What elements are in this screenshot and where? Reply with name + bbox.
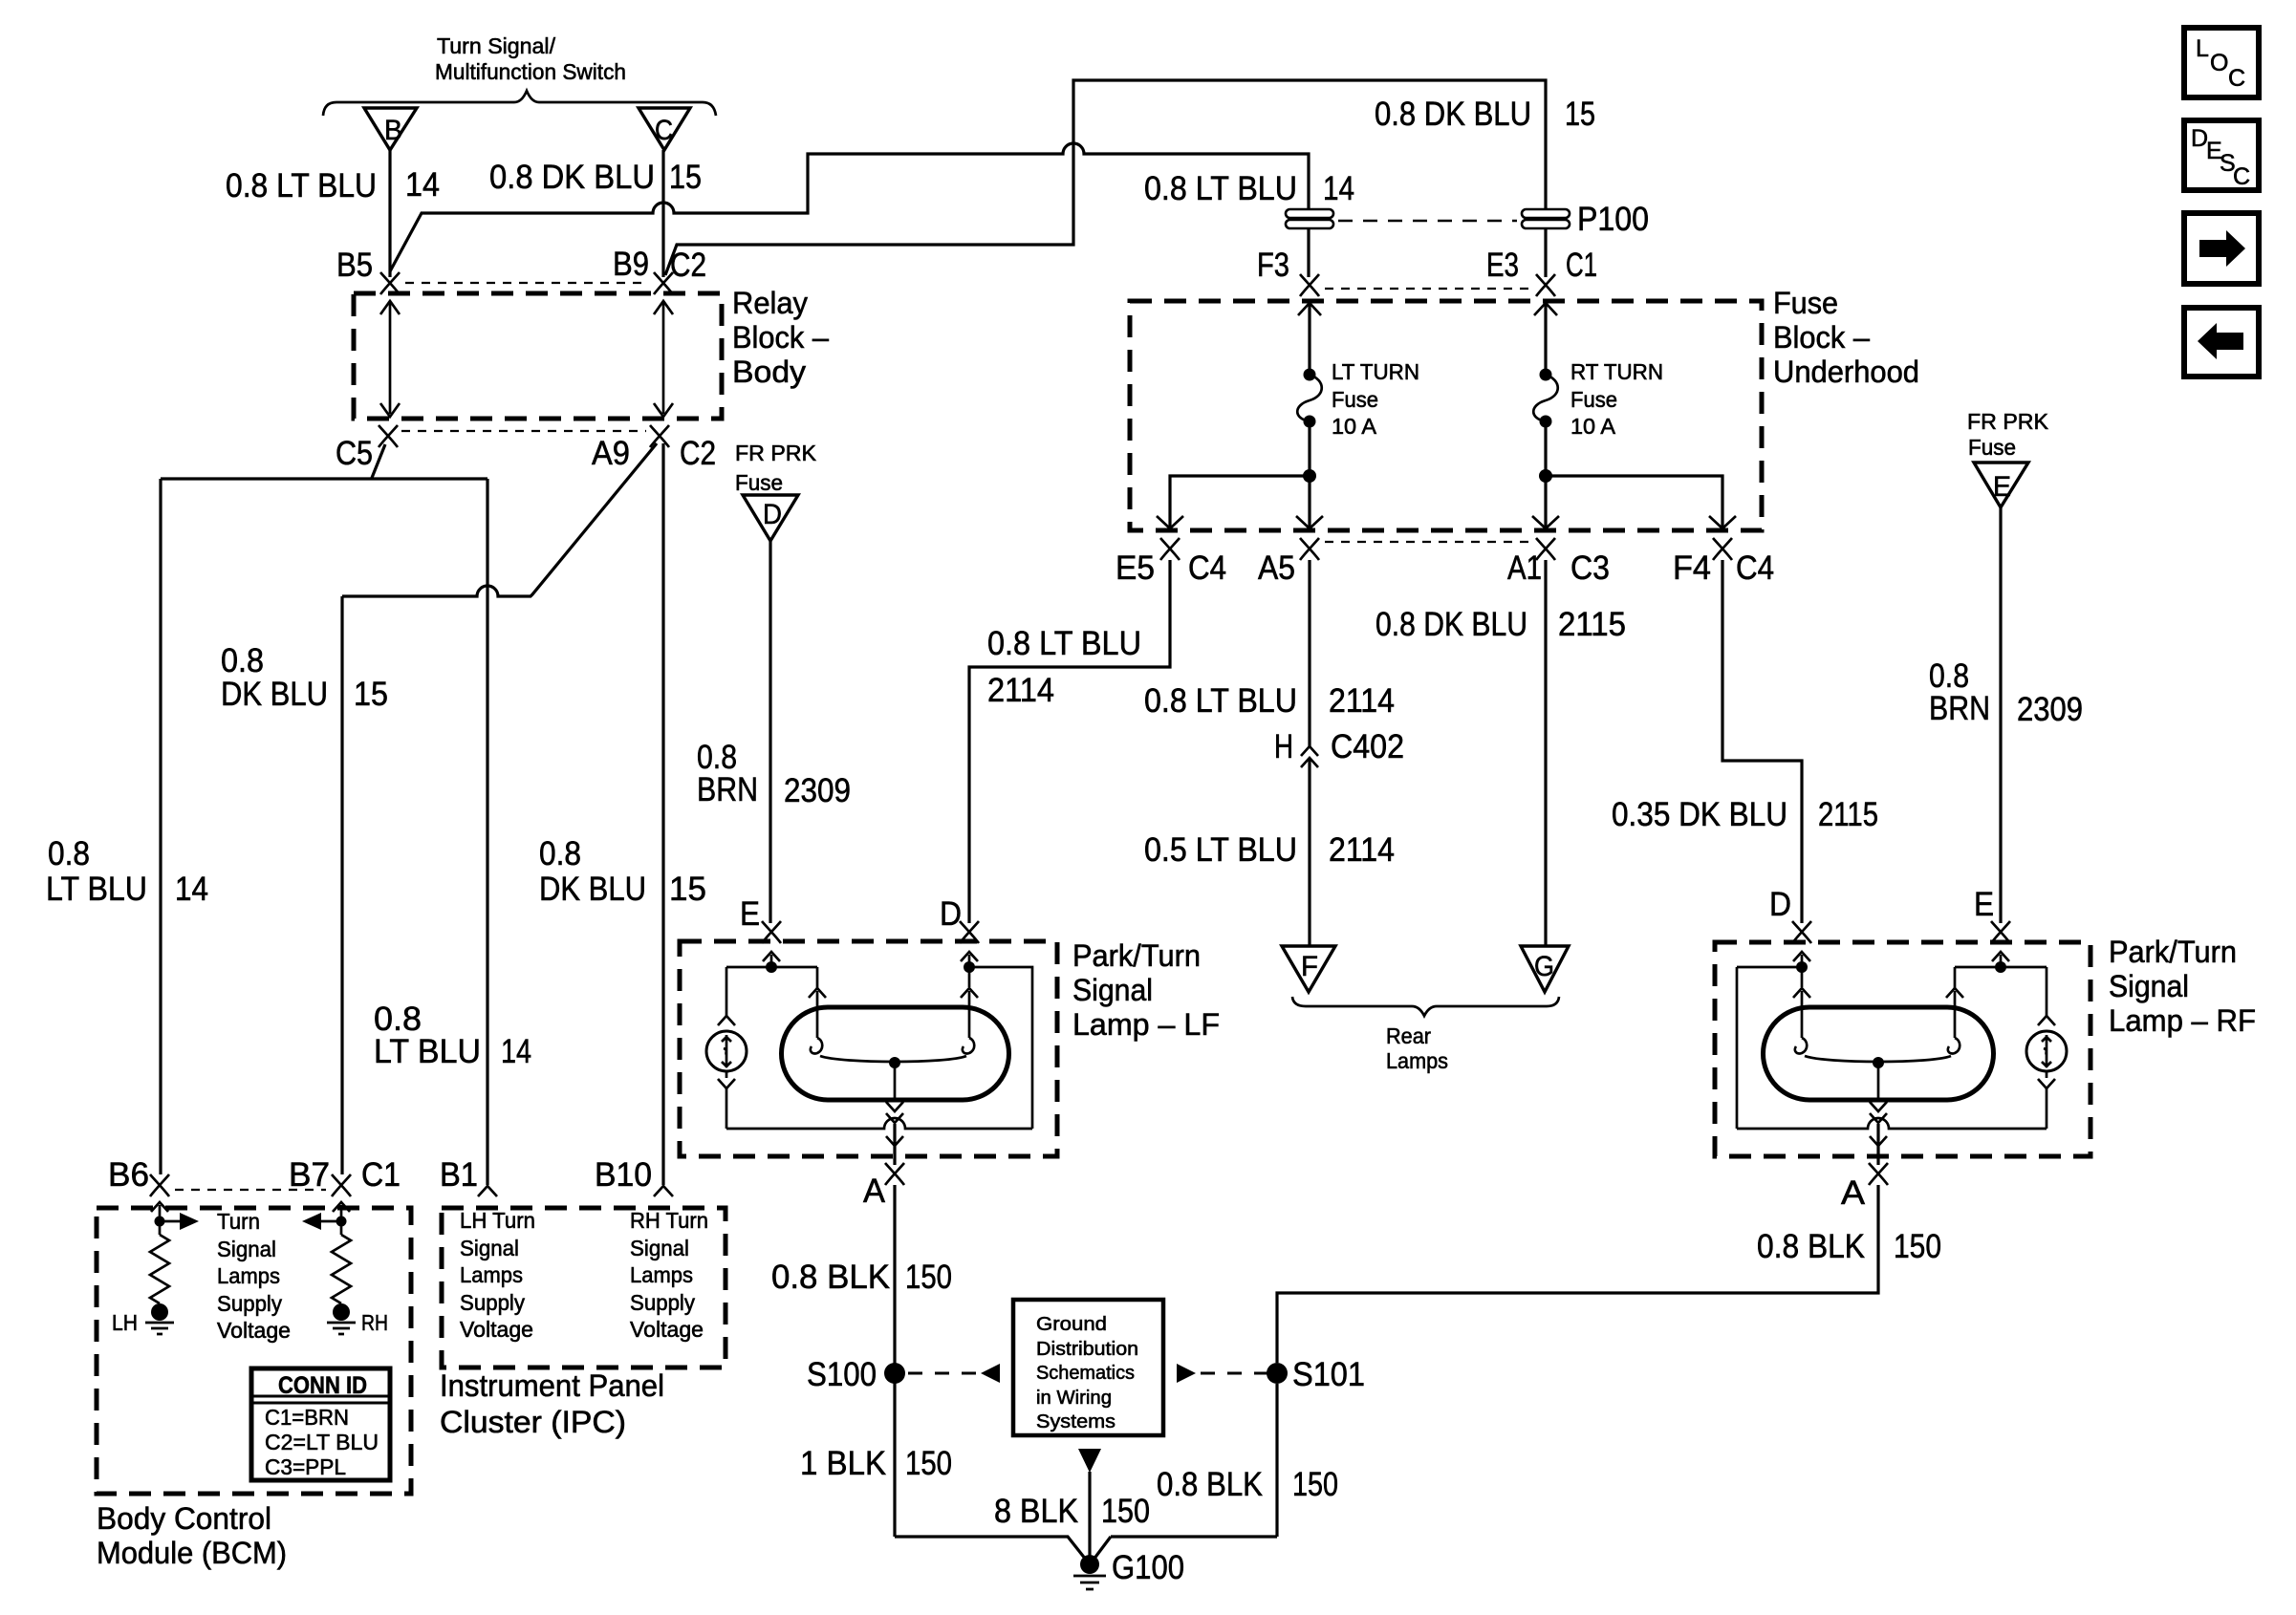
FR PRK Fuse label (left) — [735, 441, 817, 495]
relay block label — [732, 286, 829, 389]
svg-text:Ground: Ground — [1036, 1314, 1107, 1335]
svg-text:Underhood: Underhood — [1773, 355, 1919, 389]
wire B to B5 — [388, 150, 391, 277]
svg-text:14: 14 — [1323, 170, 1354, 207]
svg-text:C4: C4 — [1736, 549, 1774, 587]
svg-text:15: 15 — [1565, 96, 1595, 133]
connector X at C5 — [379, 425, 398, 447]
svg-text:Fuse: Fuse — [1773, 286, 1838, 320]
svg-text:15: 15 — [354, 676, 388, 713]
wire C1 down to RT TURN fuse — [1544, 301, 1547, 375]
svg-text:150: 150 — [905, 1259, 952, 1296]
LF park bulb down wire — [726, 1071, 728, 1129]
thin connector dash line between C5 and A9 — [401, 430, 646, 432]
svg-text:2115: 2115 — [1818, 796, 1878, 833]
RF lamp label — [2109, 935, 2256, 1038]
LH ground symbol — [145, 1323, 174, 1334]
fuse E (triangle) — [1974, 463, 2028, 507]
svg-text:B: B — [384, 115, 402, 146]
RF D terminal chevron — [1793, 952, 1810, 961]
grommet on wire 14 — [1286, 209, 1333, 228]
fuse D (triangle) — [743, 495, 798, 541]
junction dot B6 — [155, 1217, 165, 1227]
connector B (triangle) — [364, 108, 417, 150]
svg-text:1 BLK: 1 BLK — [800, 1445, 886, 1482]
thin connector dash line between B6 and B7 — [175, 1189, 326, 1191]
svg-text:E3: E3 — [1486, 247, 1519, 284]
junction dot at LF D branch — [964, 961, 975, 973]
grommet P100 on wire 15 — [1522, 209, 1570, 228]
Instrument Panel Cluster (dashed box) — [442, 1208, 726, 1367]
Turn Signal / Multifunction Switch label — [435, 33, 626, 84]
wire A9/C2 diagonal to horizontal toward B7, hops over B1 wire — [342, 443, 657, 596]
wire A1 to G triangle (0.8 DK BLU 2115) — [1544, 560, 1547, 946]
svg-text:Fuse: Fuse — [1570, 387, 1617, 412]
resistor RH turn supply — [332, 1235, 351, 1303]
svg-text:FR PRK: FR PRK — [735, 441, 817, 465]
svg-text:D: D — [940, 895, 962, 933]
svg-text:LT BLU: LT BLU — [46, 871, 147, 908]
svg-text:150: 150 — [905, 1445, 952, 1482]
svg-text:E: E — [1993, 471, 2011, 503]
svg-text:C1: C1 — [1566, 247, 1597, 284]
connector X at B5 — [380, 272, 400, 294]
LF bulb return wire through bottom to A pin — [893, 1124, 896, 1165]
wire label 0.8 LT BLU 14 (at F3) — [1144, 170, 1354, 207]
B6 internal terminal chevron — [151, 1202, 168, 1212]
svg-text:Multifunction Switch: Multifunction Switch — [435, 59, 626, 84]
wire D fuse to LF lamp E pin (0.8 BRN 2309) — [769, 541, 771, 923]
wire label 0.8 DK BLU 15 (B10 wire) — [539, 835, 706, 908]
RF turn bulb right filament entry chevron — [1946, 988, 1963, 998]
thin connector dash line between B5 and B9 — [405, 282, 648, 284]
connector X at A1/C3 — [1536, 538, 1555, 560]
svg-text:B5: B5 — [336, 247, 373, 284]
RF return exit chevrons — [1870, 1136, 1887, 1146]
svg-text:Signal: Signal — [2109, 969, 2189, 1003]
svg-text:C: C — [2228, 65, 2245, 92]
left arrow nav box — [2184, 308, 2259, 377]
svg-text:Signal: Signal — [460, 1236, 519, 1260]
wire label 0.8 DK BLU 15 (top right) — [1375, 96, 1595, 133]
wire label 0.8 BLK 150 (LF A) — [771, 1259, 952, 1296]
brace over switch connectors — [323, 91, 716, 116]
connector X at B6 — [150, 1174, 169, 1196]
svg-text:G100: G100 — [1112, 1549, 1184, 1586]
Ground Distribution Schematics box — [1013, 1300, 1163, 1435]
LF right filament — [963, 991, 974, 1053]
svg-text:Lamps: Lamps — [1386, 1048, 1448, 1073]
wire C to B9/C2 — [661, 150, 664, 277]
ground G100 dot — [1080, 1555, 1099, 1574]
svg-text:LH: LH — [112, 1310, 138, 1335]
svg-text:C1=BRN: C1=BRN — [265, 1405, 349, 1430]
svg-text:O: O — [2210, 50, 2228, 76]
RF turn bulb left filament entry chevron — [1793, 988, 1810, 998]
svg-text:DK BLU: DK BLU — [221, 676, 328, 713]
RF E terminal chevron — [1992, 952, 2009, 961]
splice dashed link right — [1177, 1364, 1267, 1383]
svg-text:0.8 LT BLU: 0.8 LT BLU — [1144, 682, 1297, 720]
svg-text:E: E — [1974, 886, 1994, 923]
RF lamp internal bottom wire (hops over return) — [1737, 1118, 2047, 1129]
wire label 0.8 DK BLU 15 (B7 wire) — [221, 642, 388, 713]
connector chevron at B1 — [478, 1186, 497, 1196]
svg-text:S101: S101 — [1292, 1356, 1365, 1393]
connector chevron at B10 — [654, 1186, 673, 1196]
connector X at RF E — [1991, 921, 2010, 943]
svg-text:Module (BCM): Module (BCM) — [97, 1536, 287, 1570]
wire label 0.8 BRN 2309 (RF) — [1929, 657, 2083, 728]
splice dashed link left — [908, 1364, 1000, 1383]
RF E internal branch to park bulb — [1955, 955, 2047, 1016]
B7 direction arrow (left) — [302, 1213, 341, 1230]
RF right filament — [1948, 991, 1960, 1053]
LF turn bulb left filament entry chevron — [809, 988, 826, 998]
svg-text:Cluster (IPC): Cluster (IPC) — [440, 1405, 626, 1439]
exit arrow at A5 — [1296, 516, 1323, 528]
svg-text:H: H — [1274, 728, 1293, 765]
ground bus wire into G100 — [895, 1537, 1277, 1560]
RF bulb return chevrons — [1870, 1102, 1887, 1123]
connector X at LF E — [762, 921, 781, 943]
Park/Turn Signal Lamp - LF (dashed box) — [680, 941, 1057, 1156]
svg-text:Lamps: Lamps — [630, 1262, 693, 1287]
wire B9/C2 jog up to top horizontal (0.8 DK BLU 15 to P100) — [665, 80, 1546, 277]
svg-text:DK BLU: DK BLU — [539, 871, 646, 908]
svg-text:BRN: BRN — [1929, 690, 1990, 727]
wire S101 up and over to RF A (0.8 BLK 150) — [1277, 1185, 1878, 1363]
connector X at LF A — [885, 1163, 904, 1185]
svg-text:RT TURN: RT TURN — [1570, 359, 1663, 384]
connector C (triangle) — [639, 108, 690, 150]
svg-text:Lamps: Lamps — [217, 1263, 280, 1288]
ground G100 symbol — [1073, 1576, 1106, 1589]
LF filament common wire — [820, 1056, 966, 1100]
connector X at A9/C2 — [650, 425, 669, 447]
svg-text:Signal: Signal — [217, 1237, 276, 1261]
wire C402 to F triangle (0.5 LT BLU 2114) — [1308, 760, 1310, 946]
wire label 0.35 DK BLU 2115 — [1612, 796, 1878, 833]
svg-text:Rear: Rear — [1386, 1023, 1431, 1048]
brace under F and G (rear lamps) — [1292, 997, 1559, 1016]
wire B5 jog to F3 (0.8 LT BLU 14), hops over wire 15 and vertical at 1123 — [390, 143, 1309, 277]
wire F3 down to LT TURN fuse — [1308, 301, 1310, 375]
svg-text:Lamp – RF: Lamp – RF — [2109, 1003, 2256, 1038]
wire RT fuse to junction and branch to F4 — [1546, 421, 1722, 527]
B7 internal wire — [340, 1205, 343, 1235]
svg-text:2309: 2309 — [2017, 691, 2083, 728]
exit arrow at E5 — [1157, 516, 1183, 528]
CONN ID table — [251, 1368, 390, 1480]
svg-text:A: A — [863, 1173, 886, 1210]
svg-text:0.8 LT BLU: 0.8 LT BLU — [987, 625, 1141, 662]
LF park bulb lower chevron — [718, 1079, 735, 1088]
svg-text:C402: C402 — [1331, 728, 1404, 765]
LF D terminal chevron — [961, 952, 978, 961]
svg-text:RH Turn: RH Turn — [630, 1208, 708, 1233]
svg-text:Voltage: Voltage — [630, 1317, 704, 1342]
connector X at B9/C2 — [654, 272, 673, 294]
entry arrow at C1 into fuse block — [1534, 303, 1557, 315]
RF bulb return wire through bottom to A pin — [1876, 1124, 1879, 1165]
svg-text:14: 14 — [175, 871, 208, 908]
LH ground dot — [151, 1303, 168, 1321]
svg-text:D: D — [763, 499, 782, 530]
wire A9/C2 down to IPC B10 (0.8 DK BLU 15) — [661, 443, 664, 1185]
connector X at F3 — [1300, 274, 1319, 296]
IPC LH turn label — [460, 1208, 535, 1342]
RH ground dot — [333, 1303, 350, 1321]
wire label 0.8 DK BLU 2115 — [1375, 606, 1626, 643]
svg-text:Park/Turn: Park/Turn — [2109, 935, 2237, 969]
B6 direction arrow (right) — [160, 1213, 199, 1230]
svg-text:10 A: 10 A — [1332, 414, 1377, 439]
svg-text:Body Control: Body Control — [97, 1501, 271, 1536]
svg-text:B1: B1 — [440, 1156, 478, 1194]
svg-text:L: L — [2196, 35, 2209, 62]
svg-text:0.8 DK BLU: 0.8 DK BLU — [489, 159, 655, 196]
wire E fuse to RF lamp E pin (0.8 BRN 2309) — [1999, 507, 2002, 923]
resistor LH turn supply — [150, 1235, 169, 1303]
connector X at E5/C4 — [1160, 538, 1180, 560]
svg-text:0.8 LT BLU: 0.8 LT BLU — [1144, 170, 1297, 207]
splice S100 — [884, 1363, 905, 1384]
svg-text:Supply: Supply — [630, 1290, 695, 1315]
svg-text:Supply: Supply — [460, 1290, 525, 1315]
svg-text:Schematics: Schematics — [1036, 1363, 1135, 1384]
svg-text:Signal: Signal — [630, 1236, 689, 1260]
svg-text:CONN ID: CONN ID — [278, 1372, 367, 1399]
connector X at A5 — [1300, 538, 1319, 560]
junction dot on LF filament common — [889, 1057, 900, 1068]
svg-text:0.8 BLK: 0.8 BLK — [1157, 1466, 1263, 1503]
Fuse Block - Underhood (dashed box) — [1130, 301, 1762, 530]
wire label 0.8 LT BLU 14 (B1 wire) — [374, 1001, 531, 1070]
wire label 0.8 LT BLU 14 (B6 wire) — [46, 835, 208, 908]
svg-text:0.8: 0.8 — [539, 835, 581, 872]
svg-text:Lamp – LF: Lamp – LF — [1072, 1007, 1220, 1042]
svg-text:150: 150 — [1101, 1493, 1150, 1530]
IPC RH turn label — [630, 1208, 708, 1342]
svg-text:Voltage: Voltage — [217, 1318, 291, 1343]
LF E internal branch to park bulb and turn filament — [726, 955, 817, 1016]
svg-text:Relay: Relay — [732, 286, 808, 320]
svg-text:Park/Turn: Park/Turn — [1072, 938, 1201, 973]
LF turn bulb right filament entry chevron — [961, 988, 978, 998]
connector C402 (double chevron) — [1301, 746, 1318, 767]
svg-text:Lamps: Lamps — [460, 1262, 523, 1287]
svg-text:Supply: Supply — [217, 1291, 282, 1316]
LF return exit chevrons — [886, 1136, 903, 1146]
svg-text:S100: S100 — [807, 1356, 877, 1393]
svg-text:Fuse: Fuse — [735, 470, 783, 495]
relay internal circuit B9-A9 (double arrow wire) — [654, 301, 673, 417]
connector G (triangle) — [1521, 946, 1569, 992]
svg-text:A: A — [1841, 1174, 1866, 1212]
LT TURN fuse (10 A) — [1297, 369, 1322, 428]
svg-text:C1: C1 — [361, 1156, 401, 1194]
junction dot at RF E branch — [1995, 961, 2006, 973]
wire C5 branch down to BCM B6 (0.8 LT BLU 14) — [159, 479, 162, 1174]
wire A9 branch down to BCM B7 (0.8 DK BLU 15) — [340, 596, 343, 1174]
wire C5 to junction (diagonal) then split to B6 and B1 wires — [161, 444, 487, 479]
svg-text:0.35 DK BLU: 0.35 DK BLU — [1612, 796, 1787, 833]
RF park bulb lower chevron — [2038, 1079, 2055, 1088]
entry arrow at F3 into fuse block — [1298, 303, 1321, 315]
wire label 0.8 BLK 150 (S101 leg) — [1157, 1466, 1338, 1503]
svg-text:2114: 2114 — [987, 672, 1054, 709]
svg-text:Signal: Signal — [1072, 973, 1153, 1007]
connector X at E3/C1 — [1536, 274, 1555, 296]
svg-text:150: 150 — [1894, 1228, 1941, 1265]
svg-text:A5: A5 — [1258, 549, 1295, 587]
svg-text:8 BLK: 8 BLK — [994, 1493, 1078, 1530]
svg-text:Body: Body — [732, 355, 806, 389]
wire label 1 BLK 150 — [800, 1445, 952, 1482]
svg-text:LT TURN: LT TURN — [1332, 359, 1419, 384]
RF D internal branch to filament and inner left wire — [1737, 955, 1802, 1129]
connector X at B7/C1 — [332, 1174, 351, 1196]
RH ground symbol — [327, 1323, 356, 1334]
exit arrow at F4 — [1709, 516, 1736, 528]
svg-text:E: E — [740, 895, 760, 933]
svg-text:D: D — [1769, 886, 1791, 923]
svg-text:0.8: 0.8 — [221, 642, 264, 679]
LF bulb return chevrons — [886, 1102, 903, 1123]
svg-text:A9: A9 — [592, 435, 630, 472]
LF park bulb (circle with filament) — [706, 1031, 747, 1071]
svg-text:Systems: Systems — [1036, 1411, 1116, 1432]
wire A5 down to C402 (0.8 LT BLU 2114) — [1308, 560, 1310, 746]
junction dot on RF filament common — [1873, 1057, 1884, 1068]
svg-text:G: G — [1534, 951, 1554, 982]
connector X at LF D — [960, 921, 979, 943]
junction dot LT — [1303, 469, 1316, 483]
fuse block label — [1773, 286, 1919, 389]
svg-text:0.8 BLK: 0.8 BLK — [771, 1259, 890, 1296]
svg-text:B10: B10 — [595, 1156, 652, 1194]
svg-text:C2=LT BLU: C2=LT BLU — [265, 1430, 379, 1454]
svg-text:Block –: Block – — [732, 320, 829, 355]
wire label 0.8 BLK 150 (RF A) — [1757, 1228, 1941, 1265]
wire C5 branch down to IPC B1 (0.8 LT BLU 14) — [486, 479, 488, 1185]
thin connector dash line between A5 and A1 — [1325, 541, 1529, 543]
svg-text:RH: RH — [361, 1310, 388, 1335]
svg-text:2114: 2114 — [1329, 831, 1395, 869]
svg-text:C3=PPL: C3=PPL — [265, 1454, 346, 1479]
svg-text:F: F — [1301, 951, 1318, 982]
RF park bulb (circle with filament) — [2026, 1031, 2067, 1071]
Body Control Module (dashed box) — [97, 1208, 411, 1494]
svg-text:15: 15 — [669, 871, 706, 908]
RF park bulb down wire — [2046, 1071, 2048, 1129]
wire LF A down to ground run (0.8 BLK 150) — [893, 1185, 896, 1537]
wire S101 down to ground run (0.8 BLK 150) — [1275, 1384, 1278, 1537]
svg-text:in Wiring: in Wiring — [1036, 1388, 1112, 1409]
wire label 0.8 LT BLU 14 (B wire) — [226, 166, 440, 205]
wire E5 to LF lamp D pin (0.8 LT BLU 2114) — [969, 560, 1170, 923]
svg-text:Voltage: Voltage — [460, 1317, 533, 1342]
B6 internal wire — [159, 1205, 162, 1235]
wire label 0.8 LT BLU / 2114 (E5-D) — [987, 625, 1141, 709]
LF left filament — [811, 991, 822, 1053]
RF filament common wire — [1805, 1056, 1951, 1100]
LF D internal branch to filament and inner right wire — [969, 955, 1032, 1129]
svg-text:Instrument Panel: Instrument Panel — [440, 1368, 664, 1403]
B7 internal terminal chevron — [333, 1202, 350, 1212]
dashed pass-through line between grommets — [1338, 220, 1517, 222]
svg-text:0.8 BLK: 0.8 BLK — [1757, 1228, 1865, 1265]
wire label 8 BLK 150 — [994, 1493, 1150, 1530]
svg-text:B6: B6 — [108, 1156, 149, 1194]
svg-text:C: C — [2233, 163, 2250, 190]
splice S101 — [1267, 1363, 1288, 1384]
svg-text:Fuse: Fuse — [1332, 387, 1378, 412]
Relay Block - Body (dashed box) — [354, 293, 722, 419]
svg-text:C5: C5 — [336, 435, 373, 472]
wire label 0.8 BRN 2309 (LF) — [697, 739, 851, 809]
svg-text:F4: F4 — [1673, 549, 1711, 587]
RF turn signal bulb (oval) — [1763, 1007, 1993, 1100]
thin connector dash line between F3 and E3 — [1325, 288, 1529, 290]
junction dot B7 — [336, 1217, 347, 1227]
svg-text:2114: 2114 — [1329, 682, 1395, 720]
svg-text:C2: C2 — [680, 435, 716, 472]
connector X at RF A — [1869, 1163, 1888, 1185]
wire label 0.8 DK BLU 15 (C wire) — [489, 159, 702, 196]
wire label 0.5 LT BLU 2114 — [1144, 831, 1395, 869]
svg-text:B7: B7 — [289, 1156, 330, 1194]
exit arrow at A1 — [1532, 516, 1559, 528]
relay internal circuit B5-C5 (double arrow wire) — [380, 301, 400, 417]
svg-text:BRN: BRN — [697, 771, 758, 808]
svg-text:FR PRK: FR PRK — [1967, 409, 2049, 434]
svg-text:LH Turn: LH Turn — [460, 1208, 535, 1233]
IPC label — [440, 1368, 664, 1439]
wire 8 BLK 150 to G100 — [1088, 1472, 1091, 1558]
junction dot at RF D branch — [1796, 961, 1808, 973]
svg-text:E5: E5 — [1116, 549, 1155, 587]
connector F (triangle) — [1282, 946, 1335, 992]
svg-text:Turn Signal/: Turn Signal/ — [437, 33, 556, 58]
connector X at RF D — [1792, 921, 1811, 943]
LF lamp internal bottom wire (hops over return) — [726, 1118, 1032, 1129]
svg-text:0.5 LT BLU: 0.5 LT BLU — [1144, 831, 1297, 869]
LOC nav box — [2184, 28, 2259, 97]
svg-text:150: 150 — [1292, 1466, 1338, 1503]
LF lamp label — [1072, 938, 1220, 1042]
BCM turn signal lamps supply voltage label — [217, 1209, 291, 1343]
svg-text:15: 15 — [669, 159, 702, 196]
ground feed triangle from schematics box — [1078, 1449, 1101, 1473]
RT TURN fuse label — [1570, 359, 1663, 439]
DESC nav box — [2184, 120, 2259, 190]
svg-text:0.8 LT BLU: 0.8 LT BLU — [226, 167, 377, 205]
svg-text:Turn: Turn — [217, 1209, 260, 1234]
svg-text:F3: F3 — [1257, 247, 1289, 284]
svg-text:C3: C3 — [1570, 549, 1610, 587]
wire F4 to RF lamp D pin (0.35 DK BLU 2115) — [1722, 560, 1802, 923]
BCM label — [97, 1501, 287, 1570]
junction dot at LF E branch — [766, 961, 777, 973]
svg-text:Distribution: Distribution — [1036, 1339, 1138, 1360]
junction dot RT — [1539, 469, 1552, 483]
Rear Lamps label — [1386, 1023, 1448, 1073]
wire LT fuse to junction and branch to E5 — [1170, 421, 1310, 527]
svg-text:C: C — [655, 115, 673, 146]
svg-text:P100: P100 — [1577, 201, 1649, 238]
